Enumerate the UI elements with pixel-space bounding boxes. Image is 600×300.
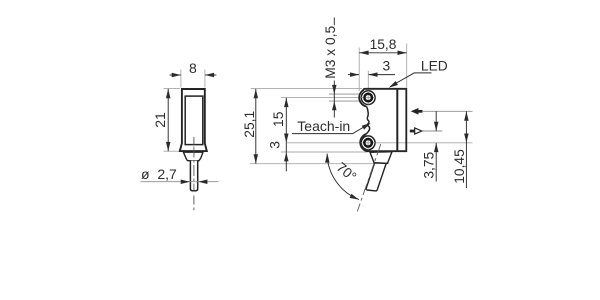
optical window inner rectangle xyxy=(185,96,203,145)
svg-text:25,1: 25,1 xyxy=(242,111,257,138)
dimension 15,8 xyxy=(359,52,407,54)
dimension 15 (left stack) xyxy=(285,98,287,152)
cable boot trapezoid (front view) xyxy=(183,152,203,161)
callout M3 x 0,5 xyxy=(333,18,335,26)
svg-text:ø 2,7: ø 2,7 xyxy=(141,166,177,182)
dimension 3,75 xyxy=(435,111,437,131)
extension line top for dim 21 xyxy=(164,88,181,90)
extension line lower hole centre (long, to right dims) xyxy=(287,142,473,144)
svg-text:3: 3 xyxy=(267,141,282,149)
dimension 8 xyxy=(170,74,217,76)
sensor body outline (side view) xyxy=(359,89,407,151)
svg-text:15,8: 15,8 xyxy=(370,37,397,52)
thread tangent line upper (M3) xyxy=(329,93,362,95)
svg-text:M3 x 0,5: M3 x 0,5 xyxy=(323,26,338,79)
extension line upper hole centre xyxy=(281,97,376,99)
extension line emitter beam axis xyxy=(422,110,472,112)
extension line receiver beam axis xyxy=(422,130,443,132)
dimension line o 2,7 xyxy=(141,181,219,183)
cable axis center line (dash-dot) xyxy=(357,144,381,212)
thread tangent line lower (M3) xyxy=(329,100,362,102)
extension line body bottom edge xyxy=(281,151,367,153)
dimension 10,45 xyxy=(465,111,467,188)
extension line left of dim 8 xyxy=(180,70,182,88)
extension line right of dim 8 xyxy=(204,70,206,88)
svg-text:3,75: 3,75 xyxy=(422,151,437,178)
svg-text:Teach-in: Teach-in xyxy=(297,118,350,134)
cable boot (side view) xyxy=(370,152,392,164)
angle arc 70 degrees xyxy=(327,154,359,200)
cable (side view, angled) xyxy=(366,163,386,191)
receiver beam arrow (open, pointing right) xyxy=(410,128,422,134)
mounting hole M3 lower xyxy=(361,136,375,150)
extension line hole centre for dim 3 top xyxy=(367,71,369,95)
extension line left for dim 15,8 xyxy=(358,48,360,92)
extension line bottom for dim 21 xyxy=(164,150,179,152)
vertical center line (front view) xyxy=(193,137,195,145)
extension line boot bottom (long) xyxy=(250,163,389,165)
front plate separation line xyxy=(396,90,398,152)
dimension 3 (top) xyxy=(348,74,395,76)
svg-text:3: 3 xyxy=(382,59,390,74)
extension line top edge (long, to left) xyxy=(251,88,362,90)
dimension 25,1 xyxy=(255,89,257,164)
svg-text:8: 8 xyxy=(189,60,197,76)
cable tube (front view) xyxy=(190,161,197,191)
svg-text:15: 15 xyxy=(271,111,286,127)
sensor body outline (front view) xyxy=(180,89,207,151)
mounting hole M3 upper xyxy=(361,91,375,105)
wavy teach-button edge (side view) xyxy=(366,107,369,135)
extension line right for dim 15,8 xyxy=(406,44,408,88)
svg-text:LED: LED xyxy=(421,58,448,73)
dimension 3 (left stack, below) xyxy=(285,152,287,171)
dimension 21 xyxy=(167,89,169,151)
svg-text:21: 21 xyxy=(152,112,168,128)
svg-text:10,45: 10,45 xyxy=(452,149,467,184)
emitter beam arrow (filled, pointing left) xyxy=(411,108,423,115)
